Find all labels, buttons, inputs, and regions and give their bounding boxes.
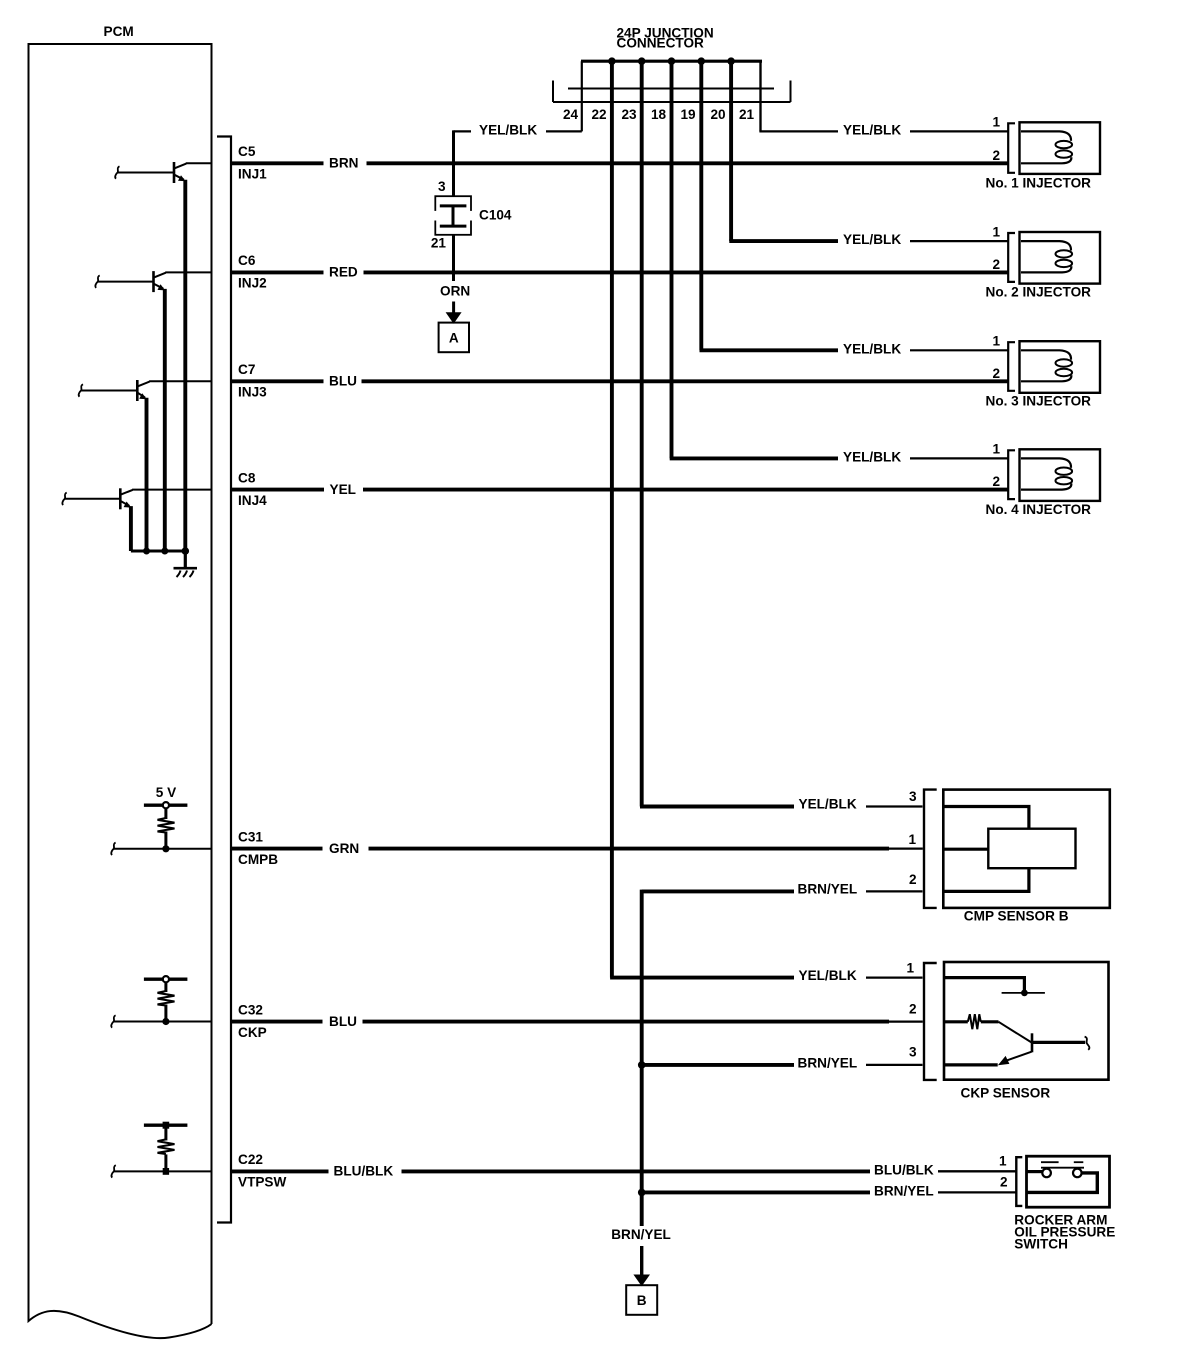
injector 4 coil (1021, 458, 1072, 489)
transistor Q2 (154, 271, 166, 292)
svg-text:BLU/BLK: BLU/BLK (874, 1163, 934, 1178)
svg-text:B: B (637, 1293, 647, 1308)
injector 2 pin 1 label (992, 224, 1000, 239)
svg-text:BRN/YEL: BRN/YEL (798, 882, 858, 897)
transistor Q1 base tick (115, 166, 119, 178)
svg-text:No. 2 INJECTOR: No. 2 INJECTOR (986, 285, 1092, 300)
injector 2 box (1020, 232, 1101, 284)
CKP internal pin 2 lead (944, 1020, 968, 1023)
CKP internal wire to amp (981, 1020, 999, 1023)
CMP pin 3 label (909, 789, 917, 804)
pin C5 label (238, 144, 256, 159)
svg-text:1: 1 (999, 1154, 1007, 1169)
transistor Q1 base wire (118, 172, 175, 174)
injector 1 connector bracket (1008, 123, 1015, 173)
node A box (439, 323, 469, 353)
svg-text:C7: C7 (238, 362, 255, 377)
svg-text:BRN/YEL: BRN/YEL (874, 1184, 934, 1199)
svg-text:1: 1 (906, 960, 914, 975)
wire BRN/YEL from CMP pin 2 (642, 882, 923, 897)
CMP pin 1 label (908, 832, 916, 847)
switch fixed contact dash 2 (1074, 1161, 1084, 1163)
PCM connector strip (217, 137, 231, 1223)
node wire VTPSW internal (111, 1165, 211, 1177)
junction connector bus dot 5 (727, 57, 735, 65)
CKP sensor label (961, 1086, 1051, 1101)
svg-text:SWITCH: SWITCH (1014, 1237, 1068, 1252)
svg-text:22: 22 (591, 107, 607, 122)
transistor Q4 base wire (65, 498, 121, 500)
svg-text:RED: RED (329, 265, 358, 280)
injector 2 label (986, 285, 1092, 300)
CMP pin 2 label (909, 872, 917, 887)
ground stem (184, 551, 187, 568)
svg-text:BRN/YEL: BRN/YEL (798, 1055, 858, 1070)
svg-text:CKP SENSOR: CKP SENSOR (961, 1086, 1051, 1101)
svg-text:C32: C32 (238, 1002, 263, 1017)
injector 3 box (1020, 341, 1101, 393)
svg-text:BRN: BRN (329, 156, 358, 171)
switch internal pin 2 lead (1027, 1173, 1098, 1193)
ORN label (440, 284, 470, 299)
svg-text:21: 21 (431, 236, 447, 251)
injector 1 label (986, 176, 1092, 191)
injector 2 coil (1021, 241, 1072, 272)
svg-text:ORN: ORN (440, 284, 470, 299)
svg-text:24: 24 (563, 107, 579, 122)
junction connector bus bar (581, 60, 762, 63)
transistor Q3 base wire (81, 390, 137, 392)
svg-text:C31: C31 (238, 829, 263, 844)
svg-text:YEL/BLK: YEL/BLK (843, 449, 901, 464)
svg-text:21: 21 (739, 107, 755, 122)
svg-text:CMPB: CMPB (238, 852, 278, 867)
svg-text:3: 3 (909, 789, 917, 804)
PCM box (29, 44, 212, 1338)
pin C22 label (238, 1152, 263, 1167)
CKP internal pickup line (1002, 992, 1045, 994)
svg-text:C104: C104 (479, 208, 512, 223)
wire YEL/BLK to injector 1 (junction pin drop) (759, 61, 1008, 137)
switch pin 2 label (1000, 1174, 1008, 1189)
pin INJ2 label (238, 276, 267, 291)
transistor Q3 collector line (149, 380, 211, 382)
svg-text:2: 2 (992, 474, 1000, 489)
svg-text:GRN: GRN (329, 841, 359, 856)
transistor Q1 (174, 162, 186, 183)
CKP sensor box (944, 962, 1109, 1080)
svg-text:C5: C5 (238, 144, 256, 159)
switch contact circle 2 (1073, 1169, 1082, 1178)
CMP internal pin 3 lead (943, 807, 1029, 829)
injector 4 box (1020, 449, 1101, 501)
wire YEL/BLK to injector 2 (junction pin drop) (729, 61, 1008, 247)
switch connector bracket (1016, 1157, 1022, 1206)
wire BLU/BLK to switch pin 1 (874, 1163, 1016, 1178)
transistor Q4 collector line (132, 489, 211, 491)
transistor Q4 base tick (62, 493, 66, 505)
ground symbol (174, 568, 198, 577)
CKP internal output wire (1032, 1041, 1085, 1044)
svg-text:No. 4 INJECTOR: No. 4 INJECTOR (986, 502, 1092, 517)
svg-text:CMP SENSOR B: CMP SENSOR B (964, 909, 1069, 924)
CMP internal pin 2 lead (943, 868, 1029, 891)
svg-text:C22: C22 (238, 1152, 263, 1167)
PCM label (104, 24, 134, 39)
wire BRN/YEL trunk (640, 890, 644, 1226)
pin C31 wire GRN (232, 841, 923, 856)
CKP pin 2 label (909, 1001, 917, 1016)
svg-text:A: A (449, 330, 459, 345)
svg-text:2: 2 (909, 1001, 917, 1016)
svg-text:CONNECTOR: CONNECTOR (617, 36, 705, 51)
arrow to B (633, 1246, 650, 1286)
wire BRN/YEL to switch pin 2 (642, 1184, 1016, 1199)
pin C5 wire BRN (232, 156, 1009, 171)
injector 4 connector bracket (1008, 450, 1015, 499)
svg-text:2: 2 (992, 366, 1000, 381)
junction dot BRN/YEL CKP (638, 1061, 646, 1069)
wire junction pin 22 drop to CKP (610, 61, 614, 977)
wire YEL/BLK to CMP pin 3 (640, 797, 923, 812)
switch contact circle 1 (1042, 1169, 1051, 1178)
CKP internal pin 3 lead (944, 1063, 998, 1066)
24P junction connector symbol (553, 81, 791, 103)
transistor Q3 (137, 380, 149, 401)
wire BRN/YEL to CKP pin 3 (642, 1055, 923, 1070)
svg-text:2: 2 (992, 148, 1000, 163)
pin C7 wire BLU (232, 374, 1009, 389)
arrow to A (446, 302, 462, 324)
C104 pin 21 label (431, 236, 447, 251)
CKP internal output tick (1085, 1037, 1090, 1050)
capacitor C104 (433, 196, 474, 235)
junction connector pin numbers (563, 107, 755, 122)
pin VTPSW label (238, 1175, 287, 1190)
transistor Q4 emitter wire (129, 506, 133, 551)
injector 3 coil (1021, 350, 1072, 381)
svg-text:2: 2 (909, 872, 917, 887)
transistor Q3 emitter wire (145, 398, 149, 551)
svg-text:INJ3: INJ3 (238, 385, 267, 400)
pin C8 wire YEL (232, 482, 1009, 497)
pin C32 label (238, 1002, 263, 1017)
pin CKP label (238, 1025, 267, 1040)
pin C6 wire RED (232, 265, 1009, 280)
pin C7 label (238, 362, 255, 377)
CKP internal pickup dot (1021, 990, 1028, 997)
svg-text:1: 1 (992, 334, 1000, 349)
svg-text:2: 2 (1000, 1174, 1008, 1189)
svg-text:3: 3 (438, 179, 446, 194)
svg-text:YEL/BLK: YEL/BLK (479, 122, 537, 137)
injector 1 pin 1 label (992, 115, 1000, 130)
svg-text:BRN/YEL: BRN/YEL (611, 1227, 671, 1242)
emitter ground bus (131, 550, 185, 553)
injector 3 pin 2 label (992, 366, 1000, 381)
svg-text:18: 18 (651, 107, 667, 122)
svg-text:INJ4: INJ4 (238, 493, 267, 508)
transistor Q2 collector line (165, 271, 211, 273)
svg-text:VTPSW: VTPSW (238, 1175, 287, 1190)
svg-text:2: 2 (992, 257, 1000, 272)
injector 3 label (986, 394, 1092, 409)
node B box (626, 1285, 657, 1315)
CKP connector bracket (924, 963, 937, 1080)
svg-text:3: 3 (909, 1045, 917, 1060)
junction connector bus dot 2 (638, 57, 646, 65)
junction dot BRN/YEL switch (638, 1189, 646, 1197)
CKP internal amp bar (1031, 1033, 1034, 1052)
CKP internal amp upper diagonal (999, 1022, 1032, 1043)
pin INJ3 label (238, 385, 267, 400)
pin C6 label (238, 253, 256, 268)
svg-text:C8: C8 (238, 470, 256, 485)
injector 3 connector bracket (1008, 342, 1015, 391)
switch fixed contact dash 1 (1041, 1161, 1059, 1163)
svg-text:YEL/BLK: YEL/BLK (799, 797, 857, 812)
transistor Q4 (120, 488, 132, 509)
CKP internal pin 1 lead (944, 978, 1024, 993)
BRN/YEL label (to B) (611, 1227, 671, 1242)
injector 4 label (986, 502, 1092, 517)
CMP connector bracket (924, 790, 937, 908)
svg-text:YEL: YEL (330, 482, 356, 497)
rocker arm oil pressure switch box (1027, 1156, 1110, 1207)
svg-text:5 V: 5 V (156, 785, 176, 800)
svg-text:1: 1 (992, 224, 1000, 239)
svg-text:1: 1 (992, 115, 1000, 130)
node wire CMPB internal (111, 843, 211, 855)
pin C8 label (238, 470, 256, 485)
svg-text:YEL/BLK: YEL/BLK (843, 341, 901, 356)
C104 pin 3 label (438, 179, 446, 194)
svg-text:BLU/BLK: BLU/BLK (334, 1164, 394, 1179)
CMP sensor label (964, 909, 1069, 924)
pin INJ4 label (238, 493, 267, 508)
transistor Q2 base tick (95, 275, 99, 287)
switch pin 1 label (999, 1154, 1007, 1169)
svg-text:No. 3 INJECTOR: No. 3 INJECTOR (986, 394, 1092, 409)
junction connector bus dot 3 (668, 57, 676, 65)
switch blade line (1041, 1167, 1084, 1169)
rocker arm switch label (1014, 1212, 1115, 1251)
transistor Q1 emitter wire (183, 180, 187, 551)
CKP internal amp lower diagonal with arrow (998, 1052, 1032, 1066)
injector 4 pin 2 label (992, 474, 1000, 489)
CKP pin 1 label (906, 960, 914, 975)
junction dot bus 2 (161, 548, 168, 555)
wire YEL/BLK to injector 3 (junction pin drop) (700, 61, 1009, 356)
pin INJ1 label (238, 167, 267, 182)
pin C32 wire BLU (232, 1014, 923, 1029)
transistor Q2 base wire (98, 281, 154, 283)
transistor Q2 emitter wire (163, 289, 167, 551)
node wire CKP internal (111, 1015, 211, 1027)
junction connector bus dot 4 (698, 57, 706, 65)
svg-text:C6: C6 (238, 253, 256, 268)
5V label (156, 785, 176, 800)
wire junction pin 23 drop to CMP (640, 61, 644, 806)
resistor R3 (VTPSW pull-up) (144, 1122, 188, 1175)
svg-text:BLU: BLU (329, 374, 357, 389)
svg-text:INJ1: INJ1 (238, 167, 267, 182)
svg-text:23: 23 (621, 107, 637, 122)
svg-text:PCM: PCM (104, 24, 134, 39)
wire YEL/BLK from pin 24 (454, 122, 582, 137)
C104 label (479, 208, 512, 223)
pin C31 label (238, 829, 263, 844)
CKP pin 3 label (909, 1045, 917, 1060)
junction dot bus 3 (182, 547, 190, 555)
svg-text:19: 19 (680, 107, 696, 122)
svg-text:20: 20 (710, 107, 725, 122)
svg-text:No. 1 INJECTOR: No. 1 INJECTOR (986, 176, 1092, 191)
resistor R2 (CKP pull-up) (144, 976, 188, 1025)
CMP sensor B box (943, 790, 1110, 908)
resistor R1 (CMPB pull-up) (144, 802, 188, 852)
wire to capacitor C104 (452, 130, 455, 196)
svg-text:YEL/BLK: YEL/BLK (843, 232, 901, 247)
CKP internal coil (968, 1014, 981, 1029)
injector 3 pin 1 label (992, 334, 1000, 349)
injector 1 coil (1021, 131, 1072, 163)
junction dot bus 1 (143, 548, 150, 555)
junction pin 21 stub (759, 61, 761, 131)
junction pin 24 stub (581, 61, 583, 131)
CMP internal pin 1 lead (943, 848, 988, 851)
svg-text:1: 1 (908, 832, 916, 847)
wire YEL/BLK to injector 4 (junction pin drop) (670, 61, 1009, 464)
injector 1 pin 2 label (992, 148, 1000, 163)
svg-text:BLU: BLU (329, 1014, 357, 1029)
transistor Q1 collector line (186, 162, 212, 164)
injector 4 pin 1 label (992, 442, 1000, 457)
transistor Q3 base tick (79, 384, 83, 396)
svg-text:INJ2: INJ2 (238, 276, 267, 291)
wire ORN from C104 (452, 235, 455, 281)
svg-text:CKP: CKP (238, 1025, 267, 1040)
injector 1 box (1020, 122, 1101, 174)
pin C22 wire BLU/BLK (232, 1164, 1017, 1179)
junction connector bus dot 1 (608, 57, 616, 65)
CMP sensor element box (988, 829, 1075, 869)
injector 2 pin 2 label (992, 257, 1000, 272)
24P junction connector label (617, 25, 714, 50)
switch internal pin 1 lead (1027, 1170, 1043, 1173)
pin CMPB label (238, 852, 278, 867)
svg-text:YEL/BLK: YEL/BLK (799, 968, 857, 983)
svg-text:1: 1 (992, 442, 1000, 457)
wire YEL/BLK to CKP pin 1 (610, 968, 922, 983)
injector 2 connector bracket (1008, 233, 1015, 282)
svg-text:YEL/BLK: YEL/BLK (843, 122, 901, 137)
